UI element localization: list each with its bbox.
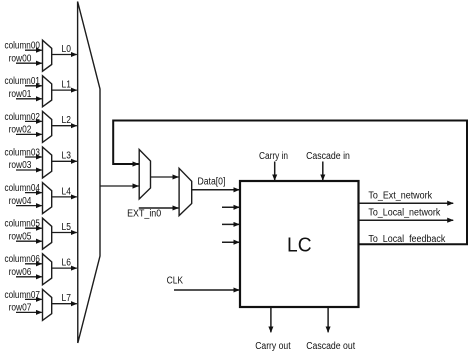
svg-text:L0: L0 [62,44,72,55]
svg-text:column02: column02 [5,112,41,123]
svg-text:row02: row02 [9,125,32,136]
svg-text:L7: L7 [62,293,72,304]
svg-text:column00: column00 [5,41,41,52]
svg-text:column03: column03 [5,147,41,158]
svg-text:L5: L5 [62,222,72,233]
svg-text:EXT_in0: EXT_in0 [127,208,161,219]
svg-text:row05: row05 [9,231,32,242]
svg-text:column04: column04 [5,183,41,194]
svg-text:L4: L4 [62,186,72,197]
svg-text:Carry in: Carry in [259,151,288,162]
svg-text:L2: L2 [62,115,72,126]
svg-text:column01: column01 [5,76,41,87]
svg-text:CLK: CLK [167,276,184,287]
svg-text:row03: row03 [9,160,32,171]
svg-text:Cascade out: Cascade out [306,341,355,351]
svg-text:To_Ext_network: To_Ext_network [368,190,433,201]
svg-text:row07: row07 [9,303,32,314]
svg-text:column05: column05 [5,219,41,230]
svg-text:Carry out: Carry out [255,341,291,351]
svg-text:Data[0]: Data[0] [198,177,226,188]
svg-text:L6: L6 [62,258,72,269]
svg-text:row01: row01 [9,89,32,100]
svg-text:L1: L1 [62,80,72,91]
svg-text:row00: row00 [9,53,32,64]
svg-text:To_Local_network: To_Local_network [368,208,441,219]
svg-text:row04: row04 [9,196,32,207]
svg-text:row06: row06 [9,267,32,278]
svg-text:column06: column06 [5,254,41,265]
svg-text:L3: L3 [62,151,72,162]
svg-text:LC: LC [287,234,312,257]
svg-text:Cascade in: Cascade in [306,151,350,162]
svg-text:column07: column07 [5,290,41,301]
